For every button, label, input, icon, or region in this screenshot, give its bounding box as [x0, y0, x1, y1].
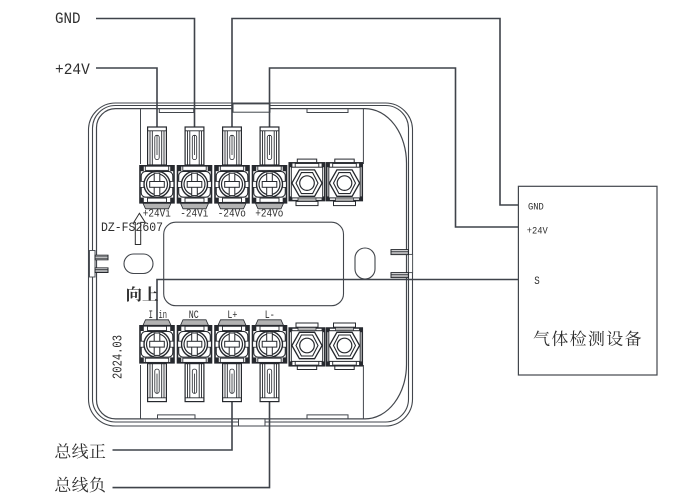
svg-text:-24Vi: -24Vi [180, 208, 208, 220]
svg-text:GND: GND [528, 201, 544, 213]
svg-text:-24Vo: -24Vo [218, 208, 246, 220]
svg-text:S: S [534, 276, 540, 288]
svg-text:in: in [159, 310, 168, 322]
svg-text:+24V: +24V [527, 226, 549, 238]
svg-text:NC: NC [189, 310, 199, 322]
svg-text:2024.03: 2024.03 [111, 335, 126, 379]
svg-text:+24V: +24V [55, 61, 90, 79]
svg-text:+24Vi: +24Vi [143, 208, 171, 220]
svg-text:DZ-FS2607: DZ-FS2607 [101, 221, 163, 235]
svg-text:L+: L+ [227, 310, 237, 322]
svg-text:L-: L- [265, 310, 275, 322]
svg-text:+24Vo: +24Vo [255, 208, 283, 220]
svg-text:I: I [149, 310, 154, 322]
svg-text:GND: GND [55, 10, 81, 28]
